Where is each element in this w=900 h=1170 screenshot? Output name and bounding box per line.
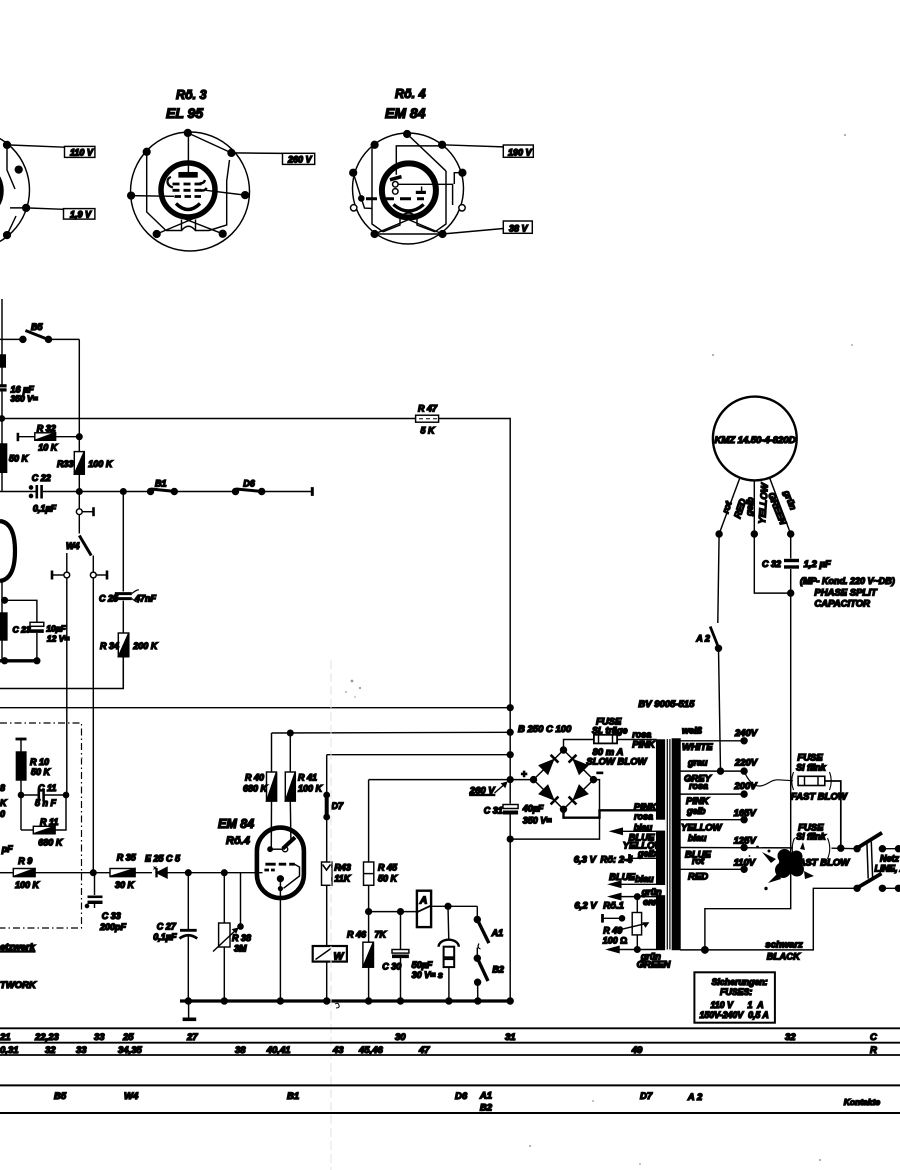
svg-text:40µF: 40µF	[522, 804, 544, 814]
svg-text:200V: 200V	[733, 781, 757, 792]
EL95 pin 3	[242, 192, 249, 199]
switch B1	[148, 479, 236, 495]
contact band bottom line	[0, 1112, 900, 1114]
EM84 pin ur	[439, 141, 446, 148]
resistor R10	[16, 739, 52, 830]
svg-text:schwarz: schwarz	[765, 940, 803, 951]
svg-text:A 2: A 2	[695, 634, 710, 644]
svg-text:100 K: 100 K	[15, 880, 41, 890]
voltage label 260 V	[231, 153, 314, 165]
svg-text:22,23: 22,23	[34, 1032, 59, 1043]
svg-text:7K: 7K	[375, 930, 388, 940]
W4 right contact	[90, 556, 107, 873]
svg-text:GREEN: GREEN	[637, 960, 672, 971]
svg-text:Rö: 2-4: Rö: 2-4	[600, 855, 633, 866]
svg-text:blau: blau	[688, 833, 707, 843]
svg-text:BLUE: BLUE	[609, 872, 636, 883]
labels rosa PINK (top)	[632, 730, 656, 751]
diode E25 C5	[145, 854, 263, 878]
svg-text:R 49: R 49	[603, 926, 622, 936]
svg-text:50 K: 50 K	[378, 874, 399, 884]
fuse table box	[694, 972, 775, 1022]
resistor R41	[285, 730, 323, 839]
tap 110V rot	[680, 856, 756, 883]
svg-text:47nF: 47nF	[134, 594, 157, 604]
svg-text:TWORK: TWORK	[0, 980, 37, 991]
svg-text:R 47: R 47	[418, 404, 438, 414]
EM84 pin top	[404, 131, 411, 138]
svg-text:6,3 V: 6,3 V	[574, 855, 597, 866]
svg-text:W4: W4	[66, 541, 80, 551]
svg-text:blau: blau	[634, 823, 653, 833]
svg-text:EL 95: EL 95	[166, 105, 203, 121]
svg-text:680 K: 680 K	[243, 784, 269, 794]
svg-text:R 34: R 34	[100, 641, 119, 651]
EM84 pin rr hollow	[459, 205, 465, 211]
wire B+ branch y=733	[272, 731, 511, 734]
svg-text:100 K: 100 K	[88, 459, 114, 469]
svg-text:C 30: C 30	[382, 962, 401, 972]
EL95 internal electrodes	[131, 133, 245, 210]
svg-text:R 35: R 35	[117, 853, 137, 863]
EM84 target circle/dot	[268, 847, 288, 852]
svg-text:grau: grau	[687, 758, 708, 768]
bridge diode 4 (lower right)	[569, 785, 588, 804]
resistor R46	[347, 930, 388, 1002]
svg-text:C 23: C 23	[13, 624, 31, 634]
bridge diode 1 (upper left)	[539, 755, 558, 774]
wire R47 to right corner	[439, 419, 511, 708]
terminal numbers row 2	[0, 1045, 877, 1056]
tap 165V gelb	[680, 806, 756, 834]
node C27	[186, 870, 192, 876]
svg-text:Si flink: Si flink	[796, 832, 826, 842]
svg-text:C 11: C 11	[38, 783, 56, 793]
wire y=491.5	[0, 491, 150, 493]
svg-text:100 K: 100 K	[298, 784, 324, 794]
svg-text:R 32: R 32	[37, 424, 56, 434]
potentiometer R38	[213, 873, 251, 1001]
motor lead rot	[716, 478, 749, 538]
svg-text:rot: rot	[692, 856, 705, 866]
terminal strip line 2	[0, 1042, 900, 1044]
switch W4	[66, 536, 91, 556]
voltage label 190 V	[442, 145, 533, 158]
svg-text:240V: 240V	[734, 728, 758, 739]
resistor R43	[322, 862, 352, 946]
svg-text:21: 21	[0, 1032, 11, 1043]
svg-text:27: 27	[186, 1032, 198, 1043]
tube U-EM84 indicator (Rö.4 lower)	[218, 817, 304, 898]
switch B2	[474, 955, 504, 1001]
heater arrow blau (bottom)	[609, 872, 657, 887]
svg-text:PHASE SPLIT: PHASE SPLIT	[814, 588, 877, 599]
svg-text:165V: 165V	[734, 808, 757, 819]
svg-text:KMZ 14.50-4-820D: KMZ 14.50-4-820D	[715, 435, 796, 446]
svg-text:8: 8	[0, 783, 5, 793]
svg-text:SLOW BLOW: SLOW BLOW	[586, 757, 647, 768]
resistor R47	[416, 404, 439, 436]
wire bridge bottom to HV winding	[564, 809, 657, 817]
svg-text:1,9 V: 1,9 V	[70, 209, 92, 219]
labels PINK rosa (bottom)	[634, 802, 658, 822]
svg-text:C 27: C 27	[157, 922, 177, 932]
motor KMZ 14.50-4-820D	[713, 397, 797, 481]
svg-text:C 32: C 32	[762, 559, 781, 569]
resistor R9	[0, 856, 110, 890]
svg-text:rosa: rosa	[632, 730, 651, 740]
svg-text:11K: 11K	[334, 874, 351, 884]
heater arrow blau (top)	[611, 823, 664, 852]
svg-text:Kontakte: Kontakte	[844, 1097, 881, 1107]
EL95 pin 5	[153, 231, 160, 238]
svg-text:A1: A1	[491, 928, 504, 938]
resistor R34	[100, 633, 159, 689]
EL95 socket skirt wiring	[147, 155, 230, 234]
svg-text:5 K: 5 K	[421, 426, 437, 436]
fuse 80mA slow blow	[564, 717, 657, 768]
rheostat R49	[603, 897, 649, 950]
capacitor C27	[153, 876, 197, 1002]
resistor (left edge, cut)	[0, 600, 7, 661]
svg-text:A 2: A 2	[687, 1092, 703, 1103]
svg-text:PINK: PINK	[632, 740, 656, 751]
svg-text:B2: B2	[480, 1103, 493, 1114]
svg-text:B1: B1	[287, 1091, 299, 1102]
svg-text:50 K: 50 K	[31, 767, 52, 777]
EM84 target bar	[283, 837, 295, 848]
EM84 pin ll hollow	[351, 205, 357, 211]
svg-text:R 41: R 41	[298, 773, 317, 783]
svg-text:R33: R33	[57, 459, 74, 469]
svg-text:200 K: 200 K	[132, 641, 159, 651]
svg-text:33: 33	[94, 1032, 105, 1043]
svg-text:12 V=: 12 V=	[47, 634, 69, 644]
svg-text:blau: blau	[635, 874, 654, 884]
wire B5 to R32/R33 node	[78, 339, 80, 451]
capacitor C22	[29, 473, 56, 514]
svg-text:R 45: R 45	[378, 863, 398, 873]
bridge diode 3 (lower left)	[539, 785, 558, 804]
schwarz BLACK wire	[680, 888, 857, 962]
svg-text:1,2 µF: 1,2 µF	[804, 559, 831, 570]
capacitor C25	[99, 494, 157, 633]
tap 220V grau	[680, 758, 758, 785]
svg-text:BV 9005-515: BV 9005-515	[638, 699, 695, 710]
svg-text:−: −	[597, 768, 604, 780]
svg-text:(MP- Kond. 220 V~DB): (MP- Kond. 220 V~DB)	[800, 576, 895, 586]
Netzwerk dash-dot box	[0, 723, 82, 928]
EL95 pin 7	[143, 148, 150, 155]
wire B+ branch y=779.6 (260V node)	[369, 779, 511, 781]
svg-text:0,1µF: 0,1µF	[33, 504, 57, 514]
svg-text:weiß: weiß	[682, 726, 703, 736]
motor lead gelb	[744, 480, 771, 537]
common bar at left	[0, 658, 40, 664]
svg-text:B5: B5	[54, 1091, 67, 1102]
svg-text:R 9: R 9	[18, 856, 32, 866]
test point below R33 node	[76, 494, 93, 533]
switch block A	[417, 891, 477, 927]
EM84 internal electrodes	[353, 134, 462, 218]
svg-text:WHITE: WHITE	[682, 742, 713, 753]
svg-text:C: C	[870, 1032, 877, 1043]
svg-text:R 38: R 38	[232, 933, 251, 943]
svg-text:Rö.4: Rö.4	[226, 835, 250, 847]
heater arrow gruen 6,2V	[574, 887, 662, 912]
svg-text:LINE, A: LINE, A	[875, 864, 900, 874]
transformer left winding (6.2V)	[657, 896, 665, 950]
svg-text:FAST BLOW: FAST BLOW	[791, 792, 848, 803]
relay W	[313, 946, 347, 1001]
node W4right/R9	[91, 870, 97, 876]
svg-text:B2: B2	[492, 965, 504, 975]
svg-text:110 V 1 A: 110 V 1 A	[711, 1000, 764, 1010]
resistor R40	[243, 733, 277, 849]
svg-text:BLACK: BLACK	[767, 952, 801, 963]
svg-text:B 250 C 100: B 250 C 100	[518, 724, 572, 735]
capacitor C33	[85, 873, 126, 932]
bridge rectifier B250C100	[510, 747, 603, 812]
heater arrow gruen bottom	[608, 947, 672, 971]
terminal numbers row 1	[0, 1032, 877, 1043]
mains switch (Netz)	[854, 833, 900, 892]
resistor R11	[21, 795, 66, 848]
resistor R45	[364, 780, 399, 943]
motor lead gruen	[765, 478, 798, 538]
svg-text:100 Ω: 100 Ω	[603, 936, 628, 946]
ground under C27	[183, 1001, 197, 1019]
tube socket Rö.2 (partial, left edge)	[0, 131, 30, 250]
voltage label 38 V	[443, 221, 533, 234]
contact D7	[324, 755, 344, 862]
svg-text:0,1µF: 0,1µF	[153, 932, 177, 942]
svg-text:C 31: C 31	[484, 806, 503, 816]
svg-text:pF: pF	[1, 844, 13, 854]
svg-text:10µF: 10µF	[46, 624, 66, 634]
svg-text:FUSES:: FUSES:	[720, 987, 752, 997]
EL95 pin 1	[184, 130, 191, 137]
svg-text:260 V: 260 V	[469, 786, 495, 797]
stray mark near rail	[335, 1003, 339, 1008]
svg-text:RED: RED	[688, 872, 708, 883]
svg-text:260 V: 260 V	[287, 155, 313, 165]
EM84 pin ul	[371, 141, 378, 148]
EL95 pin 2	[228, 150, 235, 157]
svg-text:110V: 110V	[734, 858, 756, 869]
tube socket U-EM84 (Rö.4)	[353, 87, 464, 244]
EL95 pin 6	[128, 192, 135, 199]
motor common wire to schwarz	[705, 593, 791, 950]
node R38	[222, 870, 228, 876]
voltage label 1,9 V	[26, 208, 95, 220]
fuse Si flink (upper)	[791, 753, 848, 849]
tap 240V weiss	[680, 726, 758, 754]
svg-text:Si. träge: Si. träge	[592, 726, 628, 736]
svg-text:31: 31	[505, 1032, 516, 1043]
terminal strip line 1	[0, 1027, 900, 1029]
svg-text:R43: R43	[334, 863, 351, 873]
transformer left winding (HV)	[657, 740, 665, 819]
switch A2	[695, 534, 721, 771]
terminal strip line 3	[0, 1054, 900, 1056]
capacitor C32	[762, 534, 895, 610]
cut labels at left edge	[0, 783, 13, 854]
voltage label 110 V	[7, 145, 95, 158]
capacitor C30	[382, 909, 443, 1001]
svg-text:CAPACITOR: CAPACITOR	[814, 599, 870, 610]
W4 left contact	[52, 553, 70, 795]
svg-text:Rö.1: Rö.1	[603, 901, 624, 912]
resistor R32	[18, 424, 82, 453]
tap 125V blau	[680, 833, 793, 861]
EM84 grid dashes	[264, 864, 294, 870]
wire B+ y=707.7	[0, 707, 510, 709]
svg-text:110 V: 110 V	[70, 148, 94, 158]
crease line	[330, 660, 332, 1170]
svg-text:125V: 125V	[734, 836, 757, 847]
contact band labels	[54, 1091, 880, 1114]
node gelb/gruen junction	[754, 534, 793, 596]
switch D6	[233, 479, 313, 496]
svg-text:Sicherungen:: Sicherungen:	[712, 977, 768, 987]
svg-text:W: W	[334, 951, 345, 963]
EM84 pin right	[459, 169, 466, 176]
svg-text:D7: D7	[640, 1091, 653, 1102]
svg-text:E 25 C 5: E 25 C 5	[145, 854, 181, 864]
svg-text:A1: A1	[479, 1091, 492, 1102]
resistor R33	[57, 452, 114, 492]
capacitor C11	[18, 783, 68, 808]
svg-text:C 25: C 25	[99, 594, 119, 604]
svg-text:50 K: 50 K	[9, 454, 30, 464]
svg-text:EM 84: EM 84	[218, 817, 254, 831]
svg-text:Rö. 3: Rö. 3	[176, 88, 207, 102]
label 260 V with arrow	[469, 783, 507, 797]
svg-text:220V: 220V	[734, 758, 758, 769]
wire B+ branch y=754.7	[327, 754, 511, 756]
ink blot	[749, 842, 814, 890]
svg-text:D7: D7	[332, 801, 344, 811]
svg-text:gelb: gelb	[686, 806, 706, 816]
EM84 pin br	[439, 231, 446, 238]
svg-text:150V-240V 0,5 A: 150V-240V 0,5 A	[700, 1010, 769, 1020]
svg-text:3M: 3M	[234, 944, 247, 954]
svg-text:C 33: C 33	[102, 911, 121, 921]
node R45/R46	[366, 909, 372, 915]
Netzwerk labels	[0, 942, 37, 991]
svg-text:Netz: Netz	[880, 854, 900, 864]
svg-text:rosa: rosa	[634, 812, 653, 822]
svg-text:YELLOW: YELLOW	[681, 823, 723, 834]
svg-text:30: 30	[395, 1032, 406, 1043]
svg-text:B1: B1	[155, 479, 167, 489]
EM84 anode bracket	[284, 864, 300, 888]
EL95 pin 4	[219, 230, 226, 237]
svg-text:30 K: 30 K	[115, 880, 136, 890]
svg-text:R 46: R 46	[347, 930, 367, 940]
capacitor 16uF	[0, 355, 38, 419]
svg-text:30 V= s: 30 V= s	[412, 970, 443, 980]
svg-text:gelb: gelb	[637, 849, 657, 859]
resistor 50K (left edge)	[0, 419, 30, 492]
svg-text:200pF: 200pF	[99, 922, 127, 932]
svg-text:Si flink: Si flink	[796, 763, 826, 773]
svg-text:D6: D6	[243, 479, 255, 489]
wire left edge above 16uF	[1, 299, 3, 355]
svg-text:190 V: 190 V	[508, 147, 533, 157]
svg-text:gelb: gelb	[744, 496, 755, 517]
svg-text:R 40: R 40	[245, 773, 264, 783]
pilot lamp	[439, 903, 459, 1001]
heater tap gelb 6,3V	[574, 849, 657, 866]
svg-text:5 n F: 5 n F	[35, 798, 57, 808]
svg-text:32: 32	[785, 1032, 796, 1043]
wire B+ rail top (y=418.5)	[0, 418, 416, 420]
svg-text:50µF: 50µF	[412, 960, 433, 970]
EM84 socket skirt wiring	[372, 146, 446, 234]
wire y=688.5 to R34	[0, 657, 123, 689]
EM84 pin bl	[371, 231, 378, 238]
svg-text:350 V=: 350 V=	[11, 394, 38, 404]
capacitor C23	[2, 580, 70, 661]
svg-text:350 V=: 350 V=	[523, 816, 553, 826]
svg-text:etzwerk: etzwerk	[0, 942, 36, 953]
wire V1 B+ down / capacitor C31	[484, 708, 552, 1001]
svg-text:rosa: rosa	[689, 781, 708, 791]
resistor R35	[110, 853, 152, 891]
svg-text:0: 0	[0, 809, 5, 819]
switch A1	[474, 906, 503, 958]
svg-text:6,2 V: 6,2 V	[574, 901, 597, 912]
transformer right winding (primary)	[672, 739, 680, 950]
contact band top line	[0, 1084, 900, 1086]
EM84 pin left	[350, 169, 357, 176]
svg-text:+: +	[521, 770, 527, 781]
svg-text:R 10: R 10	[30, 757, 49, 767]
svg-text:25: 25	[122, 1032, 134, 1043]
svg-text:38 V: 38 V	[509, 223, 529, 233]
wire relay line y=911.6	[369, 911, 417, 913]
svg-text:10 K: 10 K	[38, 443, 59, 453]
svg-text:grün: grün	[641, 887, 662, 897]
fuse Si flink (lower)	[792, 823, 857, 869]
tap 200V rosa	[680, 781, 757, 807]
svg-text:D6: D6	[455, 1091, 468, 1102]
svg-text:R 11: R 11	[40, 817, 58, 827]
transformer core	[667, 739, 670, 950]
svg-text:B5: B5	[31, 322, 43, 332]
EM84 cathode	[278, 876, 284, 1001]
220V correction squiggle	[744, 771, 793, 786]
svg-text:W4: W4	[124, 1091, 139, 1102]
svg-text:Rö. 4: Rö. 4	[395, 87, 426, 101]
svg-text:A: A	[419, 895, 428, 907]
tube socket U-EL95 (Rö.3)	[131, 88, 250, 251]
svg-text:C 22: C 22	[32, 473, 51, 483]
bridge diode 2 (upper right)	[569, 755, 588, 774]
svg-text:680 K: 680 K	[38, 838, 64, 848]
switch B5	[0, 322, 79, 342]
chassis rail	[180, 998, 513, 1004]
wire bridge minus to C31 minus	[510, 780, 599, 840]
svg-text:EM 84: EM 84	[385, 105, 426, 121]
transformer left winding (6.3V)	[657, 831, 665, 884]
svg-text:GRN.: GRN.	[643, 900, 661, 907]
tube Rö.2 envelope (partial, left edge)	[0, 521, 15, 581]
